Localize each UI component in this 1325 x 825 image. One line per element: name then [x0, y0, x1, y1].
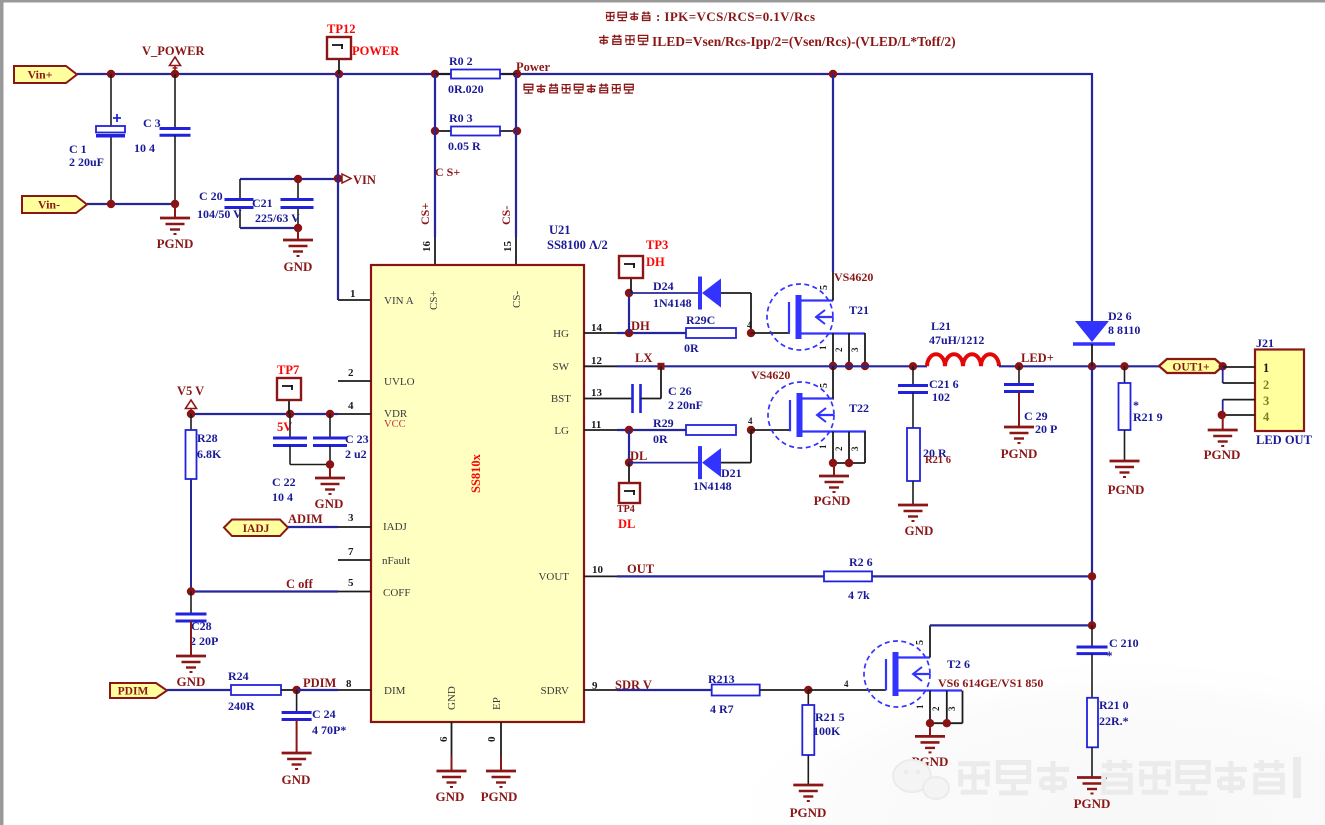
- svg-text:R24: R24: [228, 669, 249, 683]
- testpoint TP7: [288, 400, 290, 414]
- svg-text:DH: DH: [646, 255, 665, 269]
- svg-text:DIM: DIM: [384, 685, 406, 697]
- svg-text:4 R7: 4 R7: [710, 702, 734, 716]
- diode D21 1N4148: [629, 462, 700, 464]
- junction dot R02 left / CS+ column: [431, 70, 439, 78]
- svg-text:10 4: 10 4: [134, 141, 155, 155]
- wire D26 top vertical x1092: [1091, 73, 1093, 321]
- testpoint TP3: [630, 277, 632, 293]
- wire x1092 LED+ down to OUT: [1091, 366, 1093, 625]
- svg-text:6.8K: 6.8K: [197, 447, 222, 461]
- junction dot C216: [909, 362, 917, 370]
- IC pin stub EP pin0: [500, 722, 502, 756]
- svg-text:1: 1: [1263, 361, 1269, 375]
- svg-text:LED+: LED+: [1021, 351, 1054, 365]
- ground GND under pin6: [451, 756, 453, 771]
- svg-text:IADJ: IADJ: [243, 523, 270, 535]
- junction dot C21 top: [294, 175, 302, 183]
- svg-text:2: 2: [348, 367, 354, 379]
- svg-text:GND: GND: [315, 496, 344, 511]
- svg-text:HG: HG: [553, 328, 569, 340]
- wire LX rail: [617, 365, 927, 367]
- resistor R02: [435, 73, 451, 75]
- junction dot C23 bottom: [326, 460, 334, 468]
- wire T22 drain up to LX: [832, 366, 834, 398]
- svg-text:0R: 0R: [684, 341, 699, 355]
- page border frame: [0, 0, 1325, 3]
- svg-text:C 210: C 210: [1109, 636, 1139, 650]
- J21 pin2 wire: [1222, 367, 1224, 383]
- svg-text:: IPK=VCS/RCS=0.1V/Rcs: : IPK=VCS/RCS=0.1V/Rcs: [656, 9, 815, 24]
- svg-text:TP7: TP7: [277, 363, 299, 377]
- svg-text:C S+: C S+: [435, 165, 460, 179]
- svg-text:CS-: CS-: [511, 291, 523, 308]
- junction dot V5V/R28: [187, 410, 195, 418]
- svg-text:PGND: PGND: [481, 789, 518, 804]
- watermark bar: [1293, 757, 1301, 798]
- svg-text:GND: GND: [436, 789, 465, 804]
- testpoint TP12: [338, 58, 340, 74]
- wire C20 left drop: [239, 179, 241, 199]
- port PDIM flag: [110, 683, 167, 698]
- svg-text:SDR V: SDR V: [615, 678, 652, 692]
- svg-text:6: 6: [438, 736, 450, 742]
- svg-text:2 u2: 2 u2: [345, 447, 367, 461]
- junction dot VIN: [334, 174, 342, 182]
- svg-text:TP12: TP12: [327, 22, 355, 36]
- wire SDRV to R213: [617, 689, 712, 691]
- junction dot R03 right: [513, 127, 521, 135]
- svg-text:15: 15: [502, 241, 514, 253]
- IC pin stub SW pin12: [584, 365, 617, 367]
- svg-text:PGND: PGND: [1074, 796, 1111, 811]
- svg-text:10: 10: [592, 564, 604, 576]
- svg-text:Power: Power: [516, 60, 550, 74]
- capacitor C3: [174, 74, 176, 127]
- capacitor C21: [297, 179, 299, 199]
- svg-text:GND: GND: [282, 772, 311, 787]
- svg-text:7: 7: [348, 546, 354, 558]
- svg-text:4: 4: [348, 400, 354, 412]
- svg-text:D2 6: D2 6: [1108, 309, 1132, 323]
- svg-text:SS810x: SS810x: [469, 453, 483, 493]
- wire pin1 VINA: [338, 299, 371, 301]
- port OUT1+ flag: [1159, 359, 1223, 373]
- svg-text:4: 4: [747, 320, 752, 330]
- wire T26 drain to x1092: [930, 624, 1092, 626]
- svg-text:C 3: C 3: [143, 116, 161, 130]
- svg-text:VS4620: VS4620: [751, 368, 790, 382]
- svg-text:T21: T21: [849, 303, 869, 317]
- wire CS+ column x435: [434, 74, 436, 237]
- junction dot R219: [1120, 362, 1128, 370]
- net label VIN with arrow: [342, 174, 351, 183]
- IC pin stub VOUT pin10: [584, 575, 617, 577]
- svg-text:1: 1: [818, 345, 828, 350]
- J21 pin4 wire: [1222, 400, 1224, 415]
- wire R29 to T22 gate: [751, 429, 790, 431]
- svg-text:R2 6: R2 6: [849, 555, 873, 569]
- wire VDR rail y414: [191, 413, 338, 415]
- ground PGND under T22: [833, 463, 835, 476]
- svg-text:R21 9: R21 9: [1133, 410, 1163, 424]
- svg-text:EP: EP: [491, 697, 503, 710]
- title note line2 (average current formula): [599, 35, 609, 45]
- svg-text:BST: BST: [551, 393, 571, 405]
- svg-text:R0 3: R0 3: [449, 111, 473, 125]
- resistor R213: [712, 685, 760, 696]
- svg-text:1: 1: [915, 704, 925, 709]
- wire C20/C21 top rail y179: [240, 178, 338, 180]
- wire DL drop x629: [628, 430, 630, 463]
- svg-text:T2 6: T2 6: [947, 657, 970, 671]
- junction dot DH: [625, 329, 633, 337]
- capacitor C210: [1091, 625, 1093, 646]
- svg-text:SS8100 Λ/2: SS8100 Λ/2: [547, 238, 608, 252]
- ground GND under C24: [296, 720, 298, 754]
- junction dot T26 source a: [926, 719, 934, 727]
- ground PGND under T26: [929, 723, 931, 736]
- watermark text gongzhonghao: [958, 764, 990, 793]
- svg-text:CS+: CS+: [418, 203, 432, 225]
- svg-text:3: 3: [850, 446, 860, 451]
- IC pin stub GND pin6: [451, 722, 453, 756]
- svg-text:0.05 R: 0.05 R: [448, 139, 481, 153]
- svg-text:C 22: C 22: [272, 475, 296, 489]
- junction dot PDIM/C24: [292, 686, 300, 694]
- svg-text:LG: LG: [554, 425, 569, 437]
- junction dot C210 top: [1088, 621, 1096, 629]
- ground PGND under C29: [1018, 392, 1020, 428]
- svg-text:VS6 614GE/VS1 850: VS6 614GE/VS1 850: [938, 676, 1043, 690]
- svg-text:CS-: CS-: [499, 206, 513, 225]
- svg-text:22R.*: 22R.*: [1099, 714, 1129, 728]
- junction dot LX-T21 a: [829, 362, 837, 370]
- resistor R28: [190, 414, 192, 430]
- svg-text:3: 3: [348, 512, 354, 524]
- wire TP3 drop x629: [628, 293, 630, 333]
- svg-text:COFF: COFF: [383, 587, 411, 599]
- watermark wechat icon: [893, 760, 931, 792]
- junction dot R29 right: [747, 426, 755, 434]
- port Vin+: [14, 66, 77, 83]
- svg-text:0: 0: [486, 736, 498, 742]
- svg-text:8: 8: [346, 678, 352, 690]
- svg-text:R213: R213: [708, 672, 735, 686]
- wire PDIM junction to pin8: [297, 689, 338, 691]
- resistor R03: [435, 130, 451, 132]
- junction dot T22 source b: [845, 459, 853, 467]
- note near R02 (sense resistor note): [524, 84, 533, 93]
- junction dot D24 anode: [625, 289, 633, 297]
- ground GND under R216: [898, 504, 928, 507]
- svg-text:D21: D21: [721, 466, 742, 480]
- junction dot C21 bottom: [294, 224, 302, 232]
- svg-text:4 7k: 4 7k: [848, 588, 870, 602]
- diode D24 1N4148: [629, 292, 700, 294]
- junction dot C1 bottom: [107, 200, 115, 208]
- svg-text:nFault: nFault: [382, 555, 410, 567]
- svg-text:102: 102: [932, 390, 950, 404]
- transistor T22 MOSFET: [768, 382, 834, 448]
- svg-text:GND: GND: [905, 523, 934, 538]
- svg-text:OUT: OUT: [627, 562, 655, 576]
- svg-text:5: 5: [348, 577, 354, 589]
- svg-text:D24: D24: [653, 279, 674, 293]
- ground PGND under J21: [1222, 415, 1224, 430]
- svg-text:TP4: TP4: [617, 504, 635, 515]
- svg-text:PGND: PGND: [790, 805, 827, 820]
- T21 source pins 1 2 3 drop: [832, 333, 834, 366]
- resistor R24: [231, 685, 281, 695]
- svg-text:13: 13: [591, 387, 603, 399]
- svg-text:LX: LX: [635, 351, 652, 365]
- IC pin stub LG pin11: [584, 429, 617, 431]
- svg-text:PDIM: PDIM: [303, 676, 337, 690]
- resistor R29: [686, 425, 736, 435]
- svg-text:TP3: TP3: [646, 238, 668, 252]
- port IADJ flag: [224, 520, 288, 537]
- svg-text:VOUT: VOUT: [538, 571, 569, 583]
- junction dot OUT1+: [1219, 362, 1227, 370]
- svg-text:T22: T22: [849, 401, 869, 415]
- ground PGND under EP: [500, 756, 502, 771]
- wire R213 to junction: [760, 689, 809, 691]
- wire C20/C21 bottom rail y228: [240, 227, 298, 229]
- ground PGND under R210: [1077, 776, 1107, 779]
- svg-text:ADIM: ADIM: [288, 512, 323, 526]
- capacitor C216: [912, 366, 914, 385]
- svg-text:4 70P*: 4 70P*: [312, 723, 346, 737]
- svg-text:U21: U21: [549, 223, 571, 237]
- svg-text:SW: SW: [553, 361, 570, 373]
- transistor T21 MOSFET: [767, 284, 833, 350]
- svg-text:104/50 V: 104/50 V: [197, 207, 242, 221]
- svg-text:PGND: PGND: [1108, 482, 1145, 497]
- junction dot C29: [1015, 362, 1023, 370]
- junction dot V_POWER: [171, 70, 179, 78]
- svg-text:5: 5: [819, 285, 830, 290]
- junction dot R02 right / Power: [513, 70, 521, 78]
- svg-text:V_POWER: V_POWER: [142, 44, 205, 58]
- ground PGND under C3: [174, 204, 176, 218]
- junction dot T21 drain: [829, 70, 837, 78]
- svg-text:DL: DL: [618, 517, 635, 531]
- junction dot R29C right: [747, 329, 755, 337]
- svg-text:4: 4: [844, 679, 849, 689]
- svg-text:C28: C28: [191, 619, 212, 633]
- svg-text:R29: R29: [653, 416, 674, 430]
- junction dot R215: [804, 686, 812, 694]
- wire LED+ rail: [999, 365, 1159, 367]
- junction dot C1 top: [107, 70, 115, 78]
- wire CS- column x516: [515, 74, 517, 237]
- wire Vin- rail y204: [87, 203, 175, 205]
- svg-text:GND: GND: [446, 686, 458, 710]
- ground GND under C23: [329, 465, 331, 479]
- svg-text:C21 6: C21 6: [929, 377, 959, 391]
- junction dot LX-T21 c: [861, 362, 869, 370]
- svg-text:VCC: VCC: [384, 419, 406, 430]
- svg-text:0R: 0R: [653, 432, 668, 446]
- svg-text:3: 3: [850, 347, 860, 352]
- svg-text:C 20: C 20: [199, 189, 223, 203]
- diode D26 SS110: [1088, 362, 1096, 370]
- svg-text:*: *: [1133, 398, 1139, 412]
- IC pin stub nFault: [338, 559, 371, 561]
- junction dot TP7/C22: [286, 410, 294, 418]
- svg-text:2: 2: [931, 706, 941, 711]
- capacitor C29: [1018, 366, 1020, 384]
- capacitor C1 electrolytic: [110, 74, 112, 126]
- svg-text:5: 5: [915, 640, 926, 645]
- svg-text:UVLO: UVLO: [384, 376, 415, 388]
- capacitor C23: [329, 414, 331, 437]
- title note line1 (peak current formula): [606, 13, 615, 21]
- svg-text:1N4148: 1N4148: [693, 479, 732, 493]
- svg-text:PGND: PGND: [1001, 446, 1038, 461]
- svg-text:0R.020: 0R.020: [448, 82, 484, 96]
- svg-text:8 8110: 8 8110: [1108, 323, 1140, 337]
- wire power rail y74: [77, 73, 1092, 75]
- ground GND under C28: [190, 621, 192, 656]
- svg-text:1: 1: [350, 288, 356, 300]
- wire R26 to x1092: [872, 575, 1092, 577]
- resistor R210: [1087, 698, 1098, 748]
- svg-text:3: 3: [947, 706, 957, 711]
- svg-text:R29C: R29C: [686, 313, 715, 327]
- svg-text:16: 16: [421, 241, 433, 253]
- svg-text:R0 2: R0 2: [449, 54, 473, 68]
- transistor T26 MOSFET: [864, 641, 930, 707]
- svg-text:PGND: PGND: [814, 493, 851, 508]
- IC pin stub UVLO: [338, 380, 371, 382]
- inductor L21: [927, 354, 999, 366]
- T26 source pins drop: [929, 691, 931, 724]
- svg-text:DH: DH: [631, 319, 650, 333]
- junction dot COFF/R28/C28: [187, 587, 195, 595]
- junction dot TP12: [335, 70, 343, 78]
- svg-text:C21: C21: [252, 196, 273, 210]
- wire DL node to R29: [617, 429, 686, 431]
- wire T21 drain up x833: [832, 74, 834, 272]
- capacitor C24: [296, 690, 298, 712]
- junction dot T22 source a: [829, 459, 837, 467]
- wire R29C to T21 gate: [751, 332, 790, 334]
- svg-text:47uH/1212: 47uH/1212: [929, 333, 984, 347]
- junction dot OUT x1092: [1088, 572, 1096, 580]
- svg-text:R21 6: R21 6: [925, 455, 951, 466]
- junction square LX/C26: [658, 363, 665, 370]
- svg-text:POWER: POWER: [352, 44, 400, 58]
- resistor R216: [907, 428, 920, 481]
- svg-text:R21 0: R21 0: [1099, 698, 1129, 712]
- svg-text:C 24: C 24: [312, 707, 336, 721]
- wire OUT to R26: [617, 575, 824, 577]
- testpoint TP4: [619, 483, 640, 503]
- connector J21 body: [1255, 350, 1304, 432]
- svg-text:IADJ: IADJ: [383, 521, 408, 533]
- svg-text:5: 5: [819, 383, 830, 388]
- svg-text:GND: GND: [284, 259, 313, 274]
- capacitor C20: [225, 198, 254, 201]
- junction dot R03 left: [431, 127, 439, 135]
- junction dot LX-T21 b: [845, 362, 853, 370]
- capacitor C26: [631, 384, 634, 413]
- wire PDIM to R24: [167, 689, 231, 691]
- svg-text:VIN: VIN: [353, 173, 376, 187]
- resistor R26: [824, 571, 872, 581]
- svg-text:2: 2: [834, 347, 844, 352]
- wire DH node to R29C: [617, 332, 686, 334]
- svg-text:C 29: C 29: [1024, 409, 1048, 423]
- IC pin stub SDRV pin9: [584, 689, 617, 691]
- svg-text:2: 2: [834, 446, 844, 451]
- junction dot DL: [625, 426, 633, 434]
- svg-text:225/63 V: 225/63 V: [255, 211, 300, 225]
- svg-text:ILED=Vsen/Rcs-Ipp/2=(Vsen/Rcs): ILED=Vsen/Rcs-Ipp/2=(Vsen/Rcs)-(VLED/L*T…: [652, 34, 956, 49]
- svg-text:2 20P: 2 20P: [190, 634, 218, 648]
- svg-text:10 4: 10 4: [272, 490, 293, 504]
- T22 source pins drop: [832, 432, 834, 464]
- svg-text:PDIM: PDIM: [118, 686, 149, 698]
- power symbol V_POWER: [170, 57, 181, 66]
- svg-text:J21: J21: [1256, 336, 1274, 350]
- resistor R219: [1124, 366, 1126, 383]
- svg-text:LED OUT: LED OUT: [1256, 433, 1313, 447]
- svg-text:*: *: [1106, 648, 1113, 663]
- svg-text:PGND: PGND: [1204, 447, 1241, 462]
- svg-text:100K: 100K: [813, 724, 841, 738]
- junction dot D21 anode: [625, 458, 633, 466]
- svg-text:R28: R28: [197, 431, 218, 445]
- port Vin-: [22, 196, 87, 213]
- junction dot T26 source b: [943, 719, 951, 727]
- svg-text:Vin+: Vin+: [27, 68, 52, 82]
- junction dot C23: [326, 410, 334, 418]
- wire DL to TP4: [628, 463, 630, 483]
- IC pin stub BST pin13: [584, 398, 632, 400]
- ground GND under C21: [297, 228, 299, 240]
- svg-text:1: 1: [818, 444, 828, 449]
- svg-text:GND: GND: [177, 674, 206, 689]
- svg-text:2: 2: [1263, 378, 1269, 392]
- svg-text:Vin-: Vin-: [38, 198, 60, 212]
- resistor R215: [807, 690, 809, 705]
- svg-text:2 20uF: 2 20uF: [69, 155, 104, 169]
- svg-text:4: 4: [1263, 410, 1270, 424]
- svg-text:C 1: C 1: [69, 142, 87, 156]
- wire VIN column x338: [337, 74, 339, 300]
- capacitor C22: [289, 414, 291, 437]
- svg-text:C off: C off: [286, 577, 314, 591]
- junction dot J21 pin4: [1218, 411, 1226, 419]
- resistor R29C: [686, 328, 736, 338]
- watermark text company name: [1102, 760, 1132, 792]
- svg-text:240R: 240R: [228, 699, 255, 713]
- svg-text:20 P: 20 P: [1035, 422, 1057, 436]
- svg-text:C 26: C 26: [668, 384, 692, 398]
- svg-text:L21: L21: [931, 319, 951, 333]
- svg-text:CS+: CS+: [428, 290, 440, 310]
- wire junction to T26 gate: [808, 689, 886, 691]
- svg-text:PGND: PGND: [157, 236, 194, 251]
- J21 pin3 wire: [1223, 399, 1255, 401]
- svg-text:SDRV: SDRV: [541, 685, 570, 697]
- svg-text:4: 4: [748, 416, 753, 426]
- ground PGND under R219: [1110, 460, 1140, 463]
- IC pin stub HG pin14: [584, 332, 617, 334]
